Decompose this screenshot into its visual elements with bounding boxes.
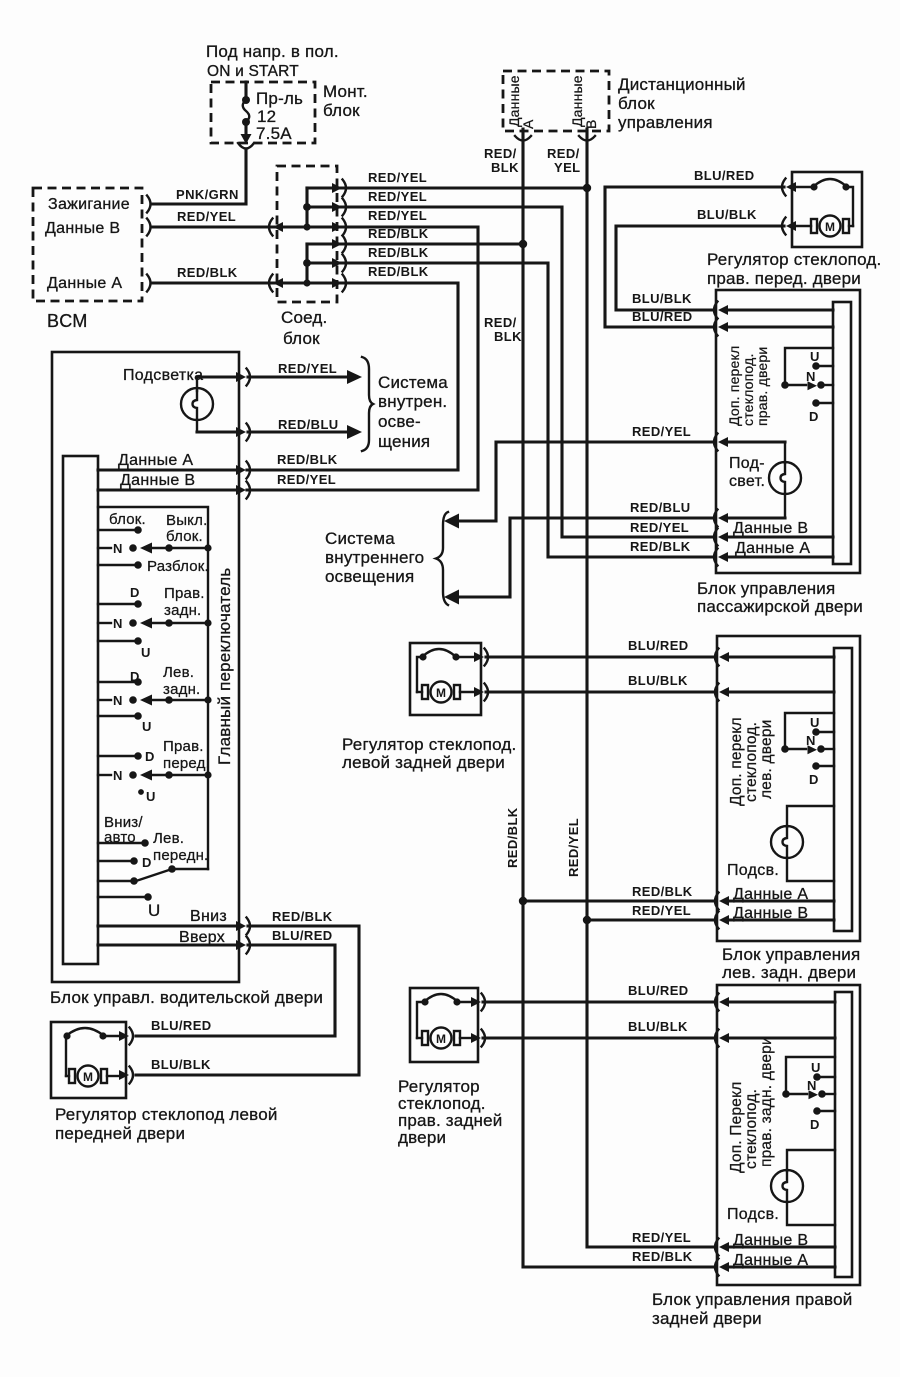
right rear door control unit box (717, 985, 860, 1285)
svg-text:RED/YEL: RED/YEL (177, 209, 236, 224)
switch group 5: label Вниз/авто (104, 814, 143, 846)
right rear aux switch (782, 1057, 835, 1115)
wire Данные A to strip (727, 1265, 835, 1268)
connector passenger RED/YEL (lamp) (714, 434, 728, 451)
connector passenger Данные B (714, 529, 728, 546)
svg-text:U: U (148, 901, 160, 920)
connector right rear regulator BLU/BLK (471, 1030, 485, 1047)
svg-text:Подсв.: Подсв. (727, 1206, 779, 1223)
connector right rear regulator BLU/RED (471, 994, 485, 1011)
svg-text:RED/BLK: RED/BLK (272, 909, 333, 924)
connector left rear door BLU/RED (715, 649, 729, 666)
svg-text:свет.: свет. (729, 473, 765, 490)
contact U group 4 (138, 789, 144, 795)
svg-text:прав. задн. двери: прав. задн. двери (758, 1036, 775, 1167)
label: Доп. Перекл стеклопод. прав. задн. двери (rotated) (728, 1036, 775, 1173)
svg-text:RED/BLK: RED/BLK (630, 539, 691, 554)
svg-text:M: M (825, 220, 835, 234)
svg-text:Блок управления: Блок управления (697, 579, 835, 598)
junction block (Соед. блок) dashed box (277, 166, 337, 302)
connector Вниз (236, 918, 250, 935)
caption: Регулятор стеклопод. левой задней двери (342, 735, 516, 772)
wire Вверх to connector (98, 943, 236, 946)
connector driver Данные B (236, 482, 250, 499)
svg-text:блок: блок (323, 101, 360, 120)
svg-text:Данные А: Данные А (47, 275, 122, 292)
connector wire4 (332, 236, 346, 253)
svg-text:перед.: перед. (163, 755, 210, 772)
label: Под- свет. (729, 455, 765, 490)
passenger lamp (Под-свет.) (726, 442, 801, 518)
wire BLU/RED from remote area down to passenger door (605, 187, 784, 327)
connector into junction block (Данные A side) (269, 275, 283, 292)
svg-text:задн.: задн. (163, 681, 200, 698)
svg-text:RED/YEL: RED/YEL (277, 472, 336, 487)
BCM connector (Данные A) (147, 275, 151, 292)
remote pin label Данные B (rotated) (569, 75, 599, 129)
caption: Блок управления правой задней двери (652, 1290, 852, 1328)
connector right front regulator BLU/RED (782, 179, 796, 196)
right front motor M (797, 187, 853, 237)
right rear lamp (771, 1150, 835, 1225)
svg-text:RED/BLU: RED/BLU (278, 417, 339, 432)
wiper blade group 5 (136, 865, 208, 881)
svg-text:N: N (113, 768, 122, 783)
svg-text:Система: Система (325, 529, 395, 548)
caption: Блок управления лев. задн. двери (722, 945, 860, 982)
svg-text:Блок управления: Блок управления (722, 945, 860, 964)
svg-text:внутрен.: внутрен. (378, 392, 447, 411)
svg-text:Регулятор стеклопод левой: Регулятор стеклопод левой (55, 1105, 278, 1124)
svg-text:RED/: RED/ (484, 146, 517, 161)
svg-text:RED/BLK: RED/BLK (177, 265, 238, 280)
wire 1 RED/YEL to remote trunk (307, 186, 585, 189)
svg-text:Данные А: Данные А (735, 540, 810, 557)
svg-text:RED/YEL: RED/YEL (368, 170, 427, 185)
svg-text:M: M (436, 686, 446, 700)
svg-text:Система: Система (378, 373, 448, 392)
wire Данные B RED/YEL from trunk (587, 918, 714, 921)
svg-text:YEL: YEL (554, 160, 580, 175)
svg-text:U: U (810, 349, 819, 364)
contact N (group 5) (98, 877, 138, 885)
caption: Регулятор стеклопод левой передней двери (55, 1105, 278, 1143)
connector driver Данные A (236, 462, 250, 479)
svg-text:BLU/BLK: BLU/BLK (697, 207, 757, 222)
svg-text:BLK: BLK (491, 160, 519, 175)
wire BLU/RED to right rear door block (483, 1000, 714, 1003)
wire Данные A to strip (726, 555, 833, 558)
wire to strip BLU/RED (727, 655, 834, 658)
svg-text:RED/YEL: RED/YEL (632, 903, 691, 918)
label Лев. передн. (153, 830, 208, 864)
contact U (group 5) (98, 893, 152, 901)
node: junction dot on RED/BLK trunk (519, 240, 527, 248)
svg-text:D: D (142, 855, 151, 870)
svg-text:PNK/GRN: PNK/GRN (176, 187, 239, 202)
junction block bus RED/YEL (303, 188, 311, 231)
svg-text:RED/BLK: RED/BLK (368, 264, 429, 279)
svg-text:U: U (810, 715, 819, 730)
connector right rear Данные B (715, 1239, 729, 1256)
svg-text:Данные А: Данные А (118, 452, 193, 469)
contact D group 2 (98, 600, 142, 608)
svg-text:RED/YEL: RED/YEL (368, 208, 427, 223)
driver door control unit box (Блок управл. водительской двери) (52, 352, 239, 982)
svg-text:лев. двери: лев. двери (758, 719, 775, 799)
svg-text:N: N (807, 1078, 816, 1093)
label: Монт. блок (323, 82, 368, 120)
label: Доп. перекл стеклопод. прав. двери (rotated) (726, 346, 770, 426)
connector right rear Данные A (715, 1259, 729, 1276)
connector below fuse (arrow down into cup) (238, 134, 254, 149)
connector under remote (Данные B) (579, 136, 595, 141)
left rear motor M (417, 657, 475, 703)
node: junction dot trunk RED/BLK to left rear door (519, 897, 527, 905)
svg-text:D: D (810, 1117, 819, 1132)
svg-text:Подсв.: Подсв. (727, 862, 779, 879)
connector into junction block (Данные B side) (269, 219, 283, 236)
svg-text:освещения: освещения (325, 567, 414, 586)
svg-text:щения: щения (378, 432, 430, 451)
wire RED/YEL from BCM to junction block bus (152, 225, 307, 228)
passenger door connector strip (833, 302, 851, 564)
wire from lighting system to passenger door lamp RED/YEL (456, 442, 714, 521)
contact N group 4 with wiper arrow (98, 770, 208, 781)
wire 6 RED/BLK to driver door Данные A (247, 283, 458, 470)
svg-text:блок.: блок. (109, 511, 146, 528)
wire BLU/BLK to passenger door (616, 226, 784, 310)
svg-text:двери: двери (398, 1128, 446, 1147)
wire lamp top to connector (197, 375, 236, 378)
svg-text:RED/YEL: RED/YEL (632, 1230, 691, 1245)
svg-text:Выкл.: Выкл. (166, 512, 207, 529)
svg-text:BLU/RED: BLU/RED (628, 638, 689, 653)
svg-text:лев. задн. двери: лев. задн. двери (722, 963, 856, 982)
wire Данные B to connector (98, 488, 236, 491)
svg-text:задн.: задн. (164, 602, 201, 619)
svg-text:левой задней двери: левой задней двери (342, 753, 505, 772)
brace for lighting system (top) (362, 357, 373, 451)
svg-text:D: D (145, 749, 154, 764)
connector right rear door BLU/RED (715, 994, 729, 1011)
svg-text:блок: блок (618, 94, 655, 113)
svg-text:Разблок.: Разблок. (147, 558, 209, 575)
contact Разблок. (98, 561, 142, 569)
svg-text:RED/BLU: RED/BLU (630, 500, 691, 515)
contact N group 1 with wiper arrow (98, 543, 208, 554)
wire BLU/BLK to right rear door block (483, 1036, 714, 1039)
svg-text:Под напр. в пол.: Под напр. в пол. (206, 42, 339, 61)
wire 3 RED/YEL to driver door Данные B (247, 227, 478, 490)
svg-text:прав. двери: прав. двери (754, 347, 770, 426)
svg-text:BLU/BLK: BLU/BLK (628, 1019, 688, 1034)
remote pin label Данные A (rotated) (506, 75, 536, 129)
svg-text:Регулятор стеклопод.: Регулятор стеклопод. (342, 735, 516, 754)
label Выкл. блок. (166, 512, 207, 545)
svg-text:задней двери: задней двери (652, 1309, 762, 1328)
svg-text:ON и START: ON и START (207, 63, 299, 80)
wire BLU/BLK to left rear door block (486, 690, 714, 693)
connector passenger RED/BLU (lamp return) (714, 510, 728, 527)
svg-text:RED/BLK: RED/BLK (632, 884, 693, 899)
main switch bus (98, 507, 212, 869)
svg-text:BLU/RED: BLU/RED (632, 309, 693, 324)
connector left rear door BLU/BLK (715, 684, 729, 701)
connector left rear Данные B (715, 912, 729, 929)
wire Данные B to strip (726, 535, 833, 538)
passenger door control unit box (716, 290, 860, 573)
right rear connector strip (835, 992, 852, 1277)
wire Данные B to strip (727, 1245, 835, 1248)
svg-text:передней двери: передней двери (55, 1124, 185, 1143)
svg-text:Соед.: Соед. (281, 308, 327, 327)
label: Доп. перекл стеклопод. лев. двери (rotated) (728, 717, 775, 806)
node: junction dot trunk RED/YEL to left rear door (583, 916, 591, 924)
switch group 4: contact D (98, 752, 142, 760)
arrow wire RED/BLU to lighting system (248, 425, 362, 439)
svg-text:Дистанционный: Дистанционный (618, 75, 746, 94)
contact авто (group 5) (98, 839, 149, 847)
svg-text:U: U (146, 789, 155, 804)
connector right front regulator BLU/BLK (782, 218, 796, 235)
left front regulator switch arc (63, 1028, 106, 1076)
svg-text:BLU/RED: BLU/RED (628, 983, 689, 998)
junction block bus RED/BLK (303, 244, 311, 287)
svg-text:Данные В: Данные В (45, 220, 120, 237)
connector right rear door BLU/BLK (715, 1030, 729, 1047)
svg-text:N: N (113, 616, 122, 631)
label: Система внутреннего освещения (middle) (325, 529, 424, 586)
contact N group 3 with wiper arrow (98, 695, 208, 706)
svg-text:Подсветка: Подсветка (123, 367, 203, 384)
svg-text:RED/YEL: RED/YEL (566, 818, 581, 877)
arrowhead lighting wire 2 (444, 590, 459, 605)
remote control unit (Дистанционный блок управления) dashed box (503, 71, 609, 131)
svg-text:RED/YEL: RED/YEL (278, 361, 337, 376)
connector left front regulator BLU/RED (119, 1028, 133, 1045)
fuse value label: Пр-ль 12 7.5A (256, 89, 303, 143)
contact U group 3 (98, 712, 142, 720)
label Лев. задн. (163, 664, 200, 698)
connector driver lamp top (236, 369, 250, 386)
caption: Регулятор стеклопод. прав. перед. двери (707, 250, 881, 288)
svg-text:BLU/BLK: BLU/BLK (628, 673, 688, 688)
svg-text:пассажирской двери: пассажирской двери (697, 597, 863, 616)
left rear door control unit box (717, 636, 860, 941)
wire to strip BLU/RED (727, 1000, 835, 1003)
svg-text:D: D (130, 585, 139, 600)
svg-text:Вниз: Вниз (190, 908, 227, 925)
right rear regulator switch arc (417, 994, 461, 1038)
arrowhead lighting wire 1 (444, 514, 459, 529)
svg-text:M: M (83, 1070, 93, 1084)
svg-text:7.5A: 7.5A (256, 124, 292, 143)
right front regulator switch arc (810, 179, 853, 226)
svg-text:U: U (811, 1060, 820, 1075)
mounting block (Монт. блок) dashed box (211, 82, 315, 143)
driver door connector strip (63, 456, 98, 964)
wire 2 RED/YEL to passenger door Данные B (307, 207, 714, 537)
svg-text:RED/YEL: RED/YEL (368, 189, 427, 204)
label: Под напр. в пол. ON и START (206, 42, 339, 80)
svg-text:управления: управления (618, 113, 713, 132)
label: Дистанционный блок управления (618, 75, 746, 132)
connector Вверх (236, 937, 250, 954)
left rear lamp (771, 806, 834, 881)
connector wire1 (332, 180, 346, 197)
svg-text:осве-: осве- (378, 412, 421, 431)
BCM pin: Данные A (47, 275, 122, 292)
svg-text:RED/BLK: RED/BLK (505, 807, 520, 868)
wire RED/BLK from BCM to junction block bus (152, 281, 307, 284)
contact D (group 5) (98, 857, 138, 865)
svg-text:D: D (809, 772, 818, 787)
svg-text:N: N (113, 541, 122, 556)
wire 5 RED/BLK to passenger door Данные A (307, 263, 714, 557)
left rear connector strip (834, 648, 852, 931)
wire BLU/RED to left rear door block (486, 655, 714, 658)
wire to strip BLU/BLK (726, 308, 833, 311)
svg-text:U: U (141, 645, 150, 660)
contact D group 3 (98, 678, 142, 686)
svg-text:RED/YEL: RED/YEL (630, 520, 689, 535)
svg-text:RED/: RED/ (484, 315, 517, 330)
svg-text:RED/: RED/ (547, 146, 580, 161)
BCM connector (Данные B) (147, 219, 151, 236)
connector wire3 (332, 219, 346, 236)
svg-text:внутреннего: внутреннего (325, 548, 424, 567)
BCM connector (Зажигание) (147, 196, 151, 213)
svg-text:Блок управления правой: Блок управления правой (652, 1290, 852, 1309)
wire lamp bottom to connector (197, 430, 236, 433)
svg-text:Регулятор стеклопод.: Регулятор стеклопод. (707, 250, 881, 269)
label RED/BLK mid trunk (484, 315, 522, 344)
wire to strip BLU/BLK (727, 1036, 835, 1039)
caption: Регулятор стеклопод. прав. задней двери (398, 1077, 503, 1147)
svg-text:Данные: Данные (569, 75, 585, 127)
wire Данные A RED/BLK from trunk (523, 899, 714, 902)
caption: Блок управления пассажирской двери (697, 579, 863, 616)
connector wire6 (332, 275, 346, 292)
svg-text:В: В (583, 119, 599, 129)
left rear window regulator box (410, 643, 481, 715)
wire PNK/GRN from fuse down then left to BCM (152, 150, 246, 204)
wire Данные A to strip (727, 899, 834, 902)
svg-text:U: U (142, 719, 151, 734)
svg-text:RED/BLK: RED/BLK (368, 226, 429, 241)
svg-text:Прав.: Прав. (163, 738, 204, 755)
svg-text:BCM: BCM (47, 311, 88, 331)
svg-text:Данные: Данные (506, 75, 522, 127)
svg-text:Данные В: Данные В (120, 472, 195, 489)
label: Соед. блок (281, 308, 327, 348)
left front window regulator box (51, 1022, 126, 1098)
connector passenger BLU/BLK (714, 302, 728, 319)
connector left front regulator BLU/BLK (119, 1067, 133, 1084)
connector wire2 (332, 199, 346, 216)
contact N group 2 with wiper arrow (98, 618, 208, 629)
connector left rear regulator BLU/BLK (474, 684, 488, 701)
svg-text:BLU/BLK: BLU/BLK (151, 1057, 211, 1072)
svg-text:Монт.: Монт. (323, 82, 368, 101)
svg-text:Пр-ль: Пр-ль (256, 89, 303, 108)
svg-text:блок: блок (283, 329, 320, 348)
trunk wire RED/BLK (Данные A) vertical (523, 129, 714, 1267)
wire Данные A to connector (98, 468, 236, 471)
BCM pin: Зажигание (48, 196, 130, 213)
trunk wire RED/YEL (Данные B) vertical (587, 129, 714, 1247)
wire Вверх BLU/RED to left front motor upper (136, 945, 335, 1036)
right rear motor M (417, 1002, 472, 1049)
svg-text:RED/YEL: RED/YEL (632, 424, 691, 439)
passenger aux switch (781, 348, 833, 407)
left front motor M (66, 1036, 120, 1087)
svg-text:Блок управл. водительской двер: Блок управл. водительской двери (50, 988, 323, 1007)
svg-text:RED/BLK: RED/BLK (368, 245, 429, 260)
contact U group 2 (98, 637, 142, 645)
svg-text:прав. перед. двери: прав. перед. двери (707, 269, 861, 288)
svg-text:BLU/RED: BLU/RED (694, 168, 755, 183)
connector driver lamp bottom (236, 424, 250, 441)
svg-text:Лев.: Лев. (153, 830, 184, 847)
svg-text:Под-: Под- (729, 455, 765, 472)
svg-text:Зажигание: Зажигание (48, 196, 130, 213)
right rear window regulator box (410, 988, 478, 1062)
label RED/BLK (remote A) (484, 146, 519, 175)
BCM pin: Данные B (45, 220, 120, 237)
svg-text:Прав.: Прав. (164, 585, 205, 602)
wire Вниз RED/BLK to left front motor lower (136, 926, 359, 1075)
connector wire5 (332, 255, 346, 272)
svg-text:Лев.: Лев. (163, 664, 194, 681)
wire 4 RED/BLK to remote trunk (307, 242, 521, 245)
svg-text:M: M (436, 1032, 446, 1046)
wire to strip BLU/RED (726, 325, 833, 328)
connector passenger Данные A (714, 549, 728, 566)
connector left rear Данные A (715, 893, 729, 910)
svg-text:D: D (809, 409, 818, 424)
node: junction dot on RED/YEL trunk (583, 184, 591, 192)
connector passenger BLU/RED (714, 319, 728, 336)
fuse F12 7.5A element (242, 82, 250, 134)
wire to strip BLU/BLK (727, 690, 834, 693)
svg-text:RED/BLK: RED/BLK (632, 1249, 693, 1264)
connector left rear regulator BLU/RED (474, 649, 488, 666)
svg-text:N: N (806, 733, 815, 748)
connector under remote (Данные A) (515, 136, 531, 141)
svg-text:RED/BLK: RED/BLK (277, 452, 338, 467)
svg-text:N: N (113, 693, 122, 708)
svg-text:Главный переключатель: Главный переключатель (215, 568, 234, 765)
right front window regulator box (792, 172, 862, 247)
driver door lamp (Подсветка) (181, 377, 213, 432)
svg-text:блок.: блок. (166, 528, 203, 545)
wire Данные B to strip (727, 918, 834, 921)
svg-text:передн.: передн. (153, 847, 208, 864)
svg-text:BLK: BLK (494, 329, 522, 344)
BCM dashed box (33, 188, 142, 301)
left rear aux switch (781, 713, 834, 770)
svg-text:BLU/BLK: BLU/BLK (632, 291, 692, 306)
svg-text:BLU/RED: BLU/RED (151, 1018, 212, 1033)
label Прав. перед. (163, 738, 210, 772)
label Прав. задн. (164, 585, 205, 619)
arrow wire RED/YEL to lighting system (248, 370, 362, 384)
svg-text:Данные В: Данные В (733, 520, 808, 537)
label: Система внутрен. освещения (top) (378, 373, 448, 451)
brace for interior lighting system (middle) (436, 512, 448, 605)
